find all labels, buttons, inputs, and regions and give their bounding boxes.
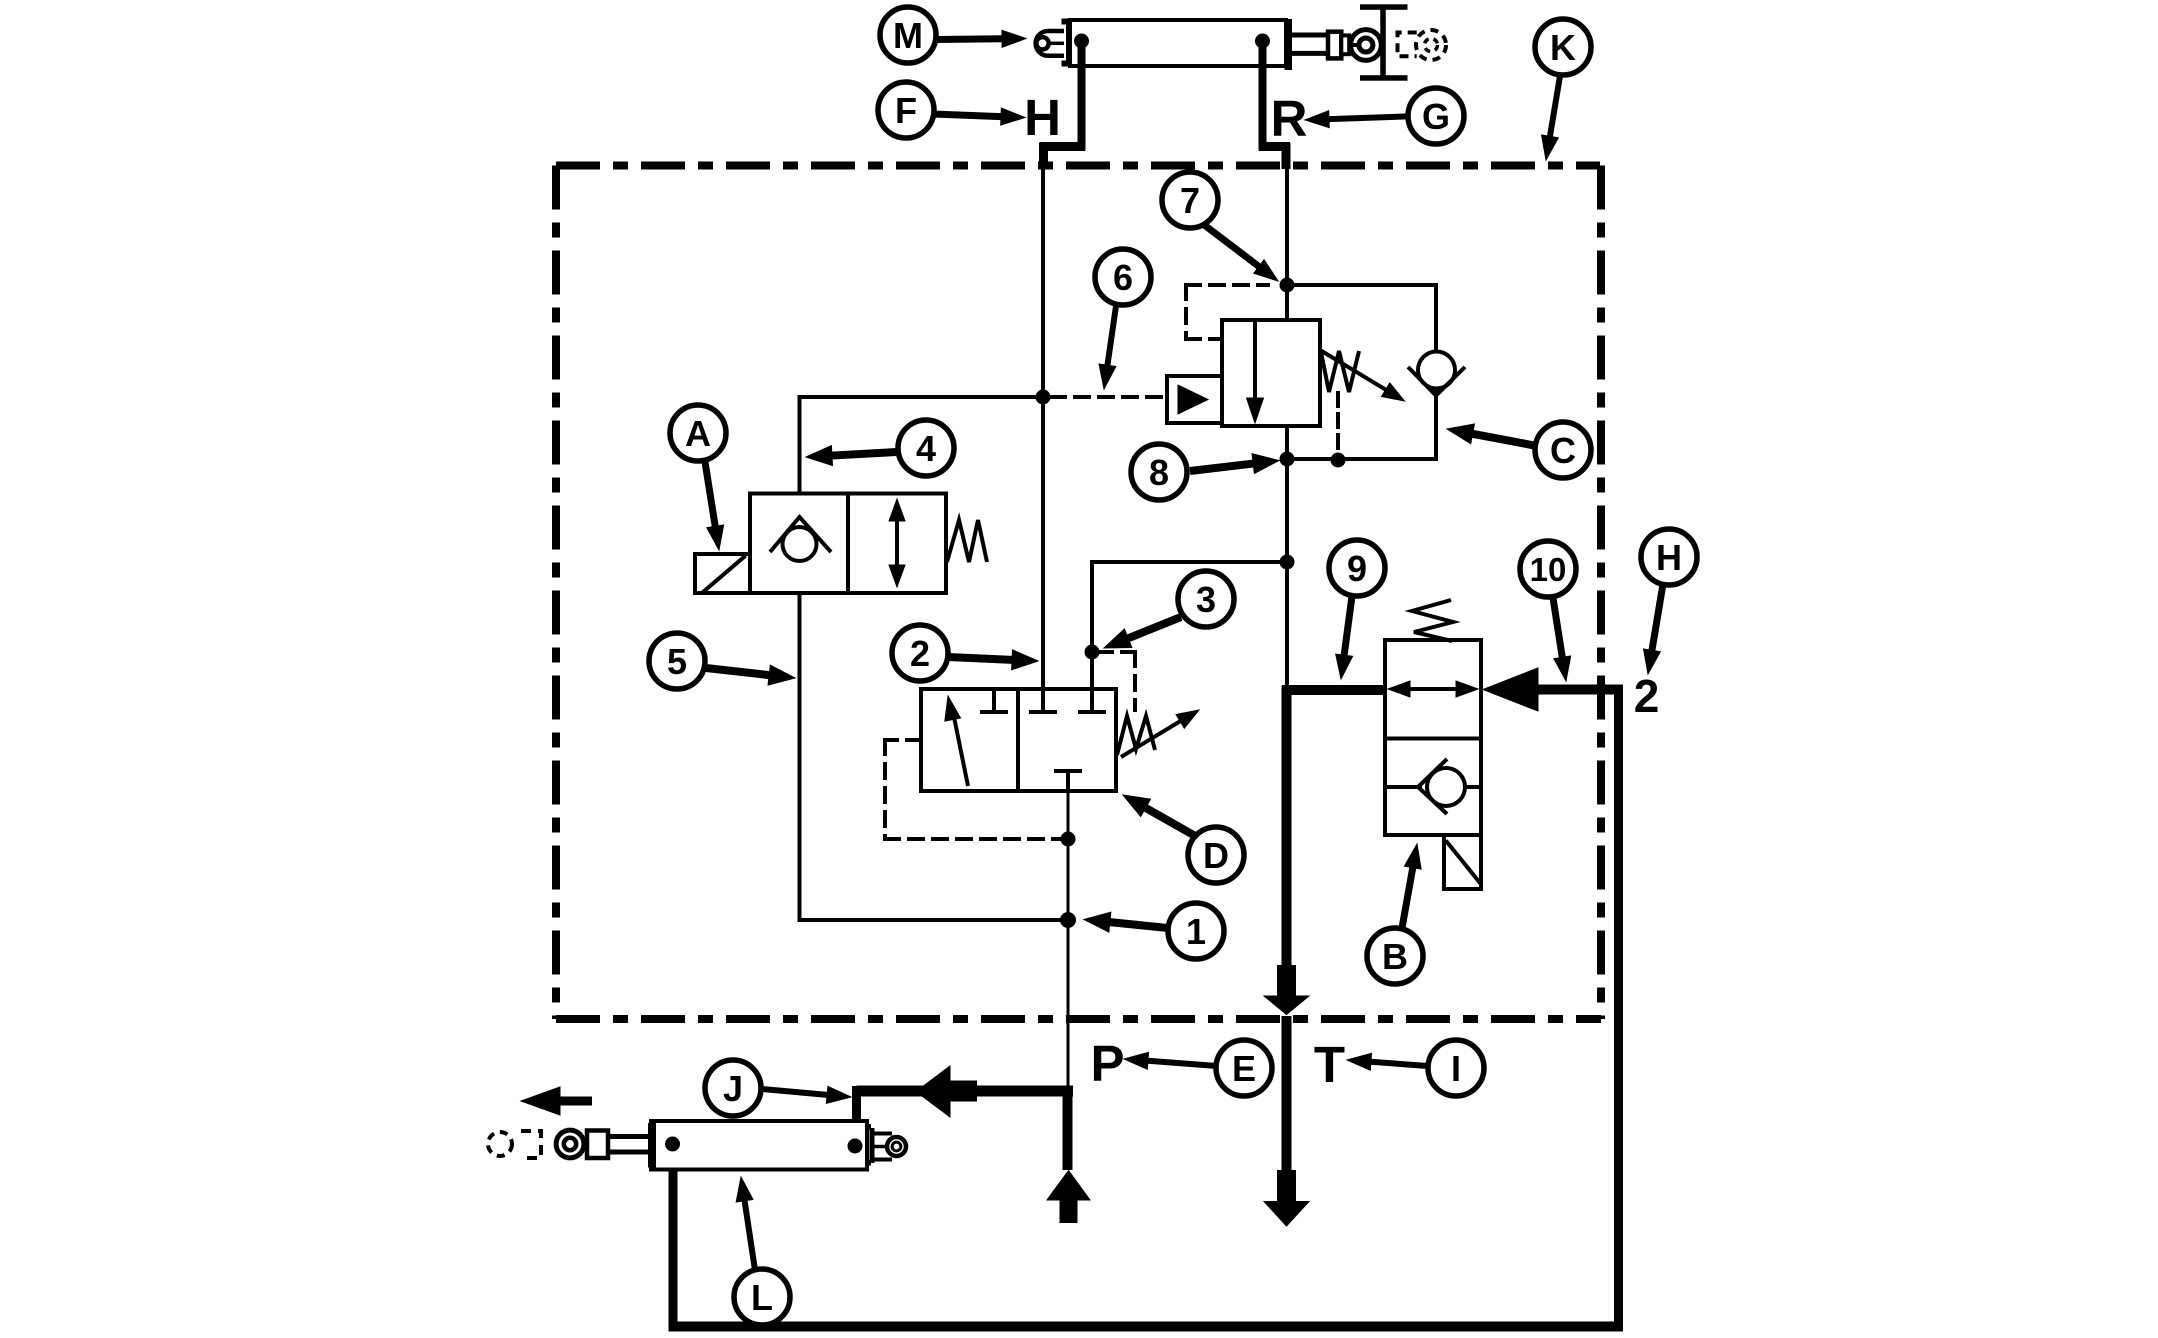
svg-text:8: 8 (1149, 452, 1169, 493)
svg-text:3: 3 (1196, 579, 1216, 620)
svg-text:H: H (1024, 89, 1061, 146)
svg-text:B: B (1382, 936, 1408, 977)
svg-text:5: 5 (667, 641, 687, 682)
svg-text:2: 2 (1634, 670, 1660, 722)
svg-text:T: T (1314, 1036, 1345, 1093)
svg-text:7: 7 (1180, 180, 1200, 221)
svg-text:1: 1 (1186, 911, 1206, 952)
svg-text:I: I (1451, 1048, 1461, 1089)
svg-text:K: K (1550, 27, 1576, 68)
svg-text:G: G (1422, 96, 1450, 137)
svg-text:F: F (895, 90, 917, 131)
svg-text:10: 10 (1530, 551, 1567, 588)
svg-text:E: E (1232, 1048, 1256, 1089)
svg-text:H: H (1656, 537, 1682, 578)
svg-text:M: M (893, 15, 923, 56)
svg-text:C: C (1550, 430, 1576, 471)
svg-text:L: L (751, 1277, 773, 1318)
svg-text:J: J (723, 1068, 743, 1109)
svg-text:2: 2 (910, 633, 930, 674)
svg-text:D: D (1203, 835, 1229, 876)
svg-text:6: 6 (1113, 257, 1133, 298)
svg-text:9: 9 (1347, 548, 1367, 589)
svg-text:P: P (1090, 1035, 1124, 1092)
svg-text:4: 4 (916, 428, 936, 469)
svg-text:R: R (1271, 90, 1308, 147)
svg-text:A: A (685, 413, 711, 454)
